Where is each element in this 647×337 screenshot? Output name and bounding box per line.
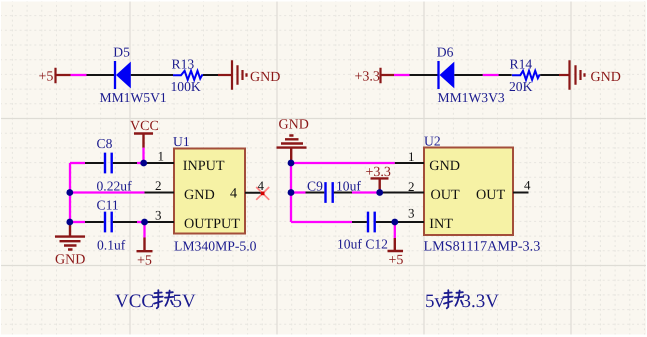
svg-text:C9: C9 (307, 179, 323, 194)
svg-text:GND: GND (279, 118, 309, 133)
wire to C8 left plate (black) (85, 162, 104, 164)
power port +5 (top-left) (39, 68, 71, 85)
junction node U2 row2 (288, 189, 295, 196)
svg-text:GND: GND (250, 70, 280, 85)
svg-text:MM1W3V3: MM1W3V3 (438, 90, 505, 105)
wire to C9 left plate (black) (306, 192, 325, 194)
svg-text:OUT: OUT (476, 187, 505, 203)
svg-text:3: 3 (408, 206, 415, 221)
svg-text:GND: GND (429, 158, 460, 174)
pin 2 U1 (145, 178, 175, 193)
caption 5v to 3.3V (425, 290, 499, 312)
pin 1 U1 (144, 149, 174, 164)
junction node pin3 U1 (141, 219, 148, 226)
junction node left bus row3 (66, 219, 73, 226)
capacitor C12 10uf (337, 212, 388, 252)
svg-text:+3.3: +3.3 (355, 70, 380, 85)
capacitor C9 10uf (307, 179, 361, 203)
wire D6 to R14 (black) (454, 74, 483, 76)
pin 2 U2 (380, 179, 424, 194)
svg-text:0.1uf: 0.1uf (97, 238, 126, 253)
svg-text:MM1W5V1: MM1W5V1 (100, 90, 167, 105)
diode D5 (100, 45, 167, 106)
svg-text:C8: C8 (97, 136, 113, 151)
pin 4 U2 (513, 178, 531, 193)
svg-text:2: 2 (155, 178, 162, 193)
no-ERC marker X on pin 4 (256, 187, 269, 200)
resistor R13 100K (171, 57, 204, 95)
svg-text:5v: 5v (425, 291, 445, 312)
svg-text:VCC: VCC (130, 119, 159, 134)
wire to R14 (black) (499, 74, 512, 76)
pin 3 U1 (145, 208, 175, 223)
svg-text:4: 4 (230, 186, 237, 202)
wire to C11 left plate (black) (85, 221, 104, 223)
svg-text:GND: GND (184, 187, 215, 203)
svg-text:R13: R13 (172, 57, 195, 72)
wire U1 row2 (magenta) (70, 191, 145, 193)
svg-text:C11: C11 (97, 198, 119, 213)
pin 3 U2 (395, 206, 424, 223)
wire to C12 left plate (black) (352, 221, 367, 223)
svg-text:+5: +5 (389, 253, 404, 268)
junction node U2 pin3 (391, 219, 398, 226)
diode D6 (437, 45, 505, 106)
junction node U2 row1 (288, 160, 295, 167)
svg-text:1: 1 (408, 149, 415, 164)
wire to D5 (black) (87, 74, 115, 76)
wire C11 right plate (black) (113, 221, 137, 223)
capacitor C11 0.1uf (97, 198, 126, 253)
svg-text:INT: INT (429, 216, 453, 232)
wire U2 row1 (magenta) (291, 162, 395, 164)
svg-text:OUTPUT: OUTPUT (184, 216, 240, 232)
vertical wire left bus (magenta) (69, 163, 71, 222)
power port GND (top-right) (559, 60, 621, 89)
wire +5 to D5 anode (magenta) (71, 74, 87, 76)
svg-text:R14: R14 (510, 57, 533, 72)
junction node +3.3 (376, 189, 383, 196)
svg-text:20K: 20K (509, 79, 533, 94)
wire U1 row3 left (magenta) (70, 221, 85, 223)
svg-text:U1: U1 (173, 134, 190, 149)
wire R13 to GND port (203, 74, 218, 76)
wire to pin3 junction (magenta) (137, 221, 145, 223)
svg-text:+5: +5 (39, 70, 54, 85)
wire C8 right plate (black) (113, 162, 137, 164)
wire R14 to GND port (540, 74, 559, 76)
pin 4 U1 (245, 178, 265, 193)
svg-text:VCC: VCC (115, 291, 154, 312)
wire to pin1 junction (magenta) (137, 162, 144, 164)
pin 1 U2 (395, 149, 424, 164)
resistor R14 20K (509, 57, 540, 95)
wire D5 to R13 (131, 74, 173, 76)
wire C9 right plate (black) (334, 192, 352, 194)
svg-text:U2: U2 (424, 134, 441, 149)
power port +3.3 (above U2 pin2) (366, 165, 391, 192)
power port GND (top-left) (218, 60, 280, 89)
svg-text:LMS81117AMP-3.3: LMS81117AMP-3.3 (424, 239, 541, 255)
wire VCC stem (magenta) (142, 148, 144, 163)
svg-text:GND: GND (591, 70, 621, 85)
wire to D6 (black) (410, 74, 438, 76)
ground GND (U1 left, earth) (55, 222, 85, 268)
svg-text:4: 4 (524, 178, 531, 193)
svg-text:10uf C12: 10uf C12 (337, 237, 388, 252)
svg-text:3.3V: 3.3V (462, 291, 500, 312)
wire U1 row1 left corner (magenta) (70, 162, 85, 164)
wire to +3.3 junction (magenta) (352, 191, 380, 193)
wire segment (magenta) (483, 74, 499, 76)
power port VCC (130, 119, 159, 148)
svg-text:3: 3 (155, 208, 162, 223)
junction node pin1 U1 (140, 160, 147, 167)
svg-text:LM340MP-5.0: LM340MP-5.0 (174, 239, 257, 254)
svg-text:2: 2 (408, 179, 415, 194)
caption VCC to 5V (115, 290, 196, 312)
capacitor C8 0.22uf (97, 136, 133, 194)
svg-text:100K: 100K (171, 79, 201, 94)
svg-text:5V: 5V (173, 291, 197, 312)
svg-text:OUT: OUT (431, 187, 460, 203)
wire U2 row3 (magenta) (291, 221, 352, 223)
power port +5 (below U2 pin3) (388, 222, 404, 268)
svg-text:10uf: 10uf (336, 179, 361, 194)
IC U1 LM340MP-5.0 (173, 134, 257, 254)
svg-text:0.22uf: 0.22uf (97, 179, 133, 194)
power port GND (above U2, earth up) (277, 118, 309, 164)
power port +5 (below U1 pin3) (137, 222, 153, 269)
junction node left bus row2 (66, 189, 73, 196)
svg-text:+5: +5 (137, 254, 152, 269)
svg-text:INPUT: INPUT (183, 158, 225, 174)
svg-text:1: 1 (158, 149, 165, 164)
power port +3.3 (top-right) (355, 68, 395, 85)
svg-text:GND: GND (55, 253, 85, 268)
IC U2 LMS81117AMP-3.3 (424, 134, 541, 255)
svg-text:D5: D5 (113, 45, 130, 60)
vertical wire U2 left bus (magenta) (290, 163, 292, 222)
svg-text:D6: D6 (437, 45, 454, 60)
wire +3.3 to D6 (magenta) (394, 74, 410, 76)
wire row2 to C9 (magenta) (291, 191, 306, 193)
wire C12 right plate (black) (376, 221, 395, 223)
